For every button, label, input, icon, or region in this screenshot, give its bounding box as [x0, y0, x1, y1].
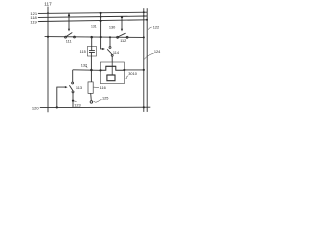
wire power line 122 vertical right: [146, 8, 148, 112]
svg-text:112: 112: [120, 39, 126, 43]
wire left drain wire y70: [73, 69, 101, 72]
svg-text:131: 131: [91, 24, 97, 28]
node dot line121 x v117: [47, 12, 49, 14]
wire leader 132: [86, 66, 88, 68]
switch S112: [117, 36, 119, 38]
box transistor 3010: [100, 62, 124, 84]
svg-text:119: 119: [30, 19, 37, 24]
svg-text:124: 124: [154, 50, 161, 54]
node dot 131 on row line: [100, 36, 102, 38]
svg-text:3010: 3010: [128, 72, 137, 76]
svg-text:125: 125: [102, 96, 108, 100]
resistor/EL element 116: [88, 82, 93, 94]
node dot row line x v124: [143, 36, 145, 38]
svg-text:115: 115: [80, 50, 86, 54]
wire cap 115 top lead: [91, 37, 93, 50]
node dot on left wire at cap branch: [90, 69, 93, 72]
wire branch 131 vertical with arrow to switch 114: [101, 13, 104, 49]
node dot line119 end: [146, 19, 148, 21]
node dot arrow 130 on line 118: [121, 16, 123, 18]
wire right drain wire y70: [124, 69, 143, 71]
wire leader squiggle 122: [148, 27, 152, 29]
svg-text:130: 130: [109, 25, 115, 29]
wire scan line 118: [40, 16, 148, 17]
box around capacitor 115: [87, 47, 96, 57]
wire row line y37: [45, 36, 144, 39]
node dot cap branch on row line: [90, 36, 93, 39]
wire scan line 119: [40, 20, 148, 22]
svg-text:117: 117: [44, 2, 52, 7]
svg-text:111: 111: [66, 40, 72, 44]
node dot 131 on line 118: [100, 16, 102, 18]
wire leader dash 119: [38, 21, 40, 23]
wire leader squiggle 3010: [126, 76, 129, 79]
switch S111: [65, 36, 67, 38]
wire signal line 117 vertical: [47, 7, 49, 113]
node dot 131 on line 121: [100, 12, 102, 14]
svg-text:122: 122: [153, 26, 159, 30]
node dot at power line 124: [143, 69, 145, 71]
wire cap bottom lead down to wire: [90, 53, 92, 82]
svg-text:116: 116: [100, 86, 106, 90]
wire arrow to switch 112: [121, 16, 123, 30]
node junction v117 x row line: [47, 36, 49, 38]
wire switch 113 top lead: [72, 70, 74, 82]
node dot line121 x v124: [143, 11, 145, 13]
wire arrow to switch 111: [68, 13, 70, 29]
wire power line 124 vertical left: [143, 8, 145, 112]
wire leader 116: [94, 86, 99, 88]
wire leader squiggle 125: [94, 99, 102, 102]
switch S113: [72, 82, 74, 84]
wire scan line 121: [40, 12, 148, 13]
wire leader 124: [144, 53, 153, 59]
node dot switch 114 top: [109, 36, 111, 38]
svg-text:113: 113: [76, 86, 82, 90]
node dot at box left edge: [99, 69, 101, 71]
terminal circle 125: [90, 101, 93, 104]
wire bottom line 120: [40, 106, 151, 108]
node dot line118 x v124: [143, 15, 145, 17]
switch S114: [109, 37, 111, 46]
transistor T3010 symbol: [111, 62, 113, 66]
node dot at box right edge: [123, 69, 125, 71]
svg-text:123: 123: [74, 104, 80, 108]
node dot arrow113 on bottom line: [56, 106, 58, 108]
wire leader dash 121: [38, 12, 40, 14]
wire arrow from bottom line to switch 113: [57, 87, 66, 107]
svg-text:120: 120: [32, 106, 39, 111]
node dot bottom line x v124: [143, 106, 145, 108]
wire lead below 116: [90, 93, 93, 100]
svg-text:132: 132: [81, 63, 87, 67]
wire leader 123 arrow dot: [74, 100, 77, 103]
node dot arrow 111 on line 118: [68, 14, 70, 16]
capacitor C115: [89, 50, 95, 52]
wire leader dash 118: [38, 17, 40, 19]
svg-text:114: 114: [113, 51, 120, 55]
node dot 131 on line 119: [100, 20, 102, 22]
